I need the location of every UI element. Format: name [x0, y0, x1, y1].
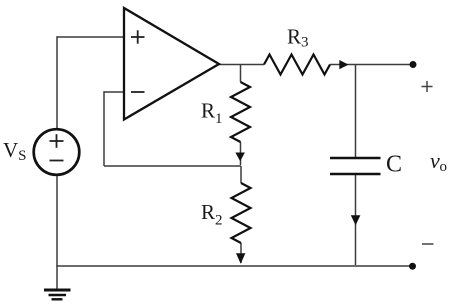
svg-text:VS: VS [3, 138, 27, 164]
svg-text:C: C [386, 152, 402, 178]
svg-text:R1: R1 [201, 99, 223, 128]
svg-text:R2: R2 [201, 200, 223, 229]
svg-text:v: v [430, 148, 440, 173]
svg-text:o: o [440, 159, 448, 175]
svg-text:R3: R3 [287, 25, 309, 51]
